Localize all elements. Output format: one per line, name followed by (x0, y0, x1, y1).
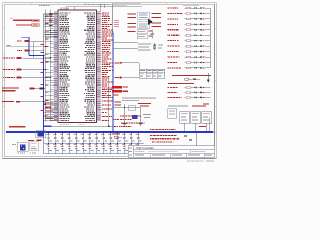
net labels right of blue vertical (114, 19, 119, 22)
resistor pack RN box 2 (138, 22, 150, 29)
net label specks on left pin wires (46, 15, 49, 116)
capacitor C409 decoupling row2 (108, 143, 114, 154)
capacitor C top middle (151, 30, 153, 34)
gray text above IC right (84, 3, 86, 6)
capacitor C408 decoupling row2 (101, 143, 107, 154)
wire blue bus vertical right of IC (112, 33, 114, 132)
capacitor C309 decoupling row1 (108, 133, 114, 144)
wire capacitor bank mid rail (46, 143, 144, 145)
power down arrow symbol (207, 73, 209, 80)
capacitor C300 decoupling row1 (46, 133, 52, 144)
diode pair bottom middle (185, 135, 187, 137)
relay block box 1 (180, 112, 190, 123)
junction dot under-IC wire right (112, 126, 113, 127)
wire bundle bus to IC mid left pins (44, 31, 58, 37)
off-page connector row y69 (3, 69, 5, 70)
red block label 2 (112, 90, 122, 92)
gray header text right column (183, 4, 199, 7)
wire purple right vertical (208, 118, 210, 132)
wire blue bus horizontal main (6, 131, 214, 133)
parameter table (139, 69, 165, 78)
component box bottom left (30, 142, 39, 151)
crystal circuit wires (124, 104, 126, 124)
capacitor C303 decoupling row1 (67, 133, 73, 144)
capacitor C304 decoupling row1 (74, 133, 80, 144)
net label specks on upper left wires (49, 13, 53, 16)
net label specks along bus (41, 43, 44, 46)
inner border frame (5, 4, 215, 157)
wire blue bus step label segment (43, 126, 52, 127)
capacitor C407 decoupling row2 (94, 143, 100, 154)
wire vertical net left of IC 1 (44, 10, 46, 122)
wire vertical net upper short (33, 42, 35, 58)
gray label right of IC top (101, 5, 103, 8)
LED indicator row 5 (resistor + dual diode) (167, 29, 169, 30)
tiny labels on under-IC wire (60, 123, 63, 126)
red net labels below bus left of title block (150, 135, 153, 136)
LED indicator row 9 (resistor + dual diode) (167, 51, 168, 52)
gray label right of crystal (143, 113, 151, 116)
blue component crystal area (132, 115, 138, 119)
LED indicator row mid 2 (167, 92, 170, 93)
ground symbol capacitor bank right end (143, 154, 145, 155)
off-page connector row y41 (17, 40, 19, 41)
resistor R bottom middle (112, 133, 120, 136)
red labels left of packs (128, 14, 137, 15)
capacitor C404 decoupling row2 (74, 143, 80, 154)
wire dark continuation above blue vertical (112, 4, 114, 33)
vertical rail right column (209, 8, 211, 68)
wire relay block to bus 2 (195, 123, 197, 131)
title block bottom row cells (149, 153, 151, 157)
LED indicator row 2 (resistor + dual diode) (167, 13, 169, 14)
border zone tick marks (3, 3, 217, 159)
off-page connector row y50 (17, 50, 19, 51)
relay block left box (168, 109, 177, 119)
capacitor C401 decoupling row2 (53, 143, 59, 154)
IC U201 internal pin name text left column (59, 12, 70, 121)
off-page connector row y58 (3, 57, 6, 58)
junction dots left bus (50, 57, 51, 58)
LED indicator row 12 (resistor + dual diode) (167, 67, 169, 68)
gray text below bottom left boxes (17, 151, 19, 154)
relay block box 3 (202, 112, 212, 123)
wire vertical net right of IC (108, 78, 110, 126)
red net labels above title block (150, 129, 151, 130)
transistor row below LED column red text (172, 75, 211, 76)
capacitor C400 decoupling row2 (46, 143, 52, 154)
crystal Y1 box (128, 106, 136, 110)
IC U201 body (58, 10, 97, 123)
wire vertical bus upper segment (43, 14, 45, 56)
capacitor C405 decoupling row2 (81, 143, 87, 154)
footer text outside frame (187, 161, 190, 162)
capacitor C411 decoupling row2 (122, 143, 128, 154)
red labels crystal (138, 103, 151, 104)
gray rail label above bus (39, 4, 41, 7)
red label above bottom left boxes (28, 139, 34, 142)
ground symbol crystal right (139, 123, 143, 125)
LED indicator row mid 1 (167, 87, 169, 88)
off-page connector into table y62 (115, 62, 120, 63)
capacitor C308 decoupling row1 (101, 133, 107, 144)
gray title text top middle (112, 3, 140, 6)
title block outline (128, 146, 215, 158)
capacitor C312 decoupling row1 (129, 133, 135, 144)
title block row lines (133, 149, 215, 151)
LED indicator row 8 (resistor + dual diode) (167, 46, 169, 47)
gray text above crystal (122, 96, 156, 99)
net label small rows near IC mid left (45, 30, 49, 33)
red block label 1 (112, 86, 122, 88)
capacitor C306 decoupling row1 (87, 133, 93, 144)
ground symbol crystal left (123, 123, 127, 125)
capacitor C311 decoupling row1 (122, 133, 128, 144)
red text row 2 below LED column (168, 83, 194, 84)
wire horizontal top feed (66, 6, 142, 8)
LED indicator row 11 (resistor + dual diode) (167, 62, 169, 63)
capacitor C402 decoupling row2 (60, 143, 66, 154)
red labels right of packs (152, 13, 162, 14)
svg-text:PQF Controller: PQF Controller (137, 146, 154, 150)
outer border frame (3, 3, 217, 159)
wire bundle bus to IC lower left pins (44, 104, 58, 120)
capacitor C307 decoupling row1 (94, 133, 100, 144)
LED indicator row 4 (resistor + dual diode) (167, 24, 169, 25)
off-page connector row y101 (2, 101, 14, 102)
connector box small 2 (137, 35, 147, 39)
table cell text (140, 70, 163, 76)
IC U201 right pin stubs (97, 13, 102, 121)
capacitor C305 decoupling row1 (81, 133, 87, 144)
gray text block mid right (138, 43, 151, 46)
wire blue bus drop to capacitor bank (43, 132, 45, 154)
wire crystal right (140, 108, 142, 124)
oscillator box X1 below bus (36, 131, 46, 138)
wire relay block to bus 3 (206, 123, 208, 131)
wire blue bus upper left jog (28, 37, 30, 56)
LED indicator row 6 (resistor + dual diode) (167, 35, 168, 36)
capacitor C310 decoupling row1 (115, 133, 121, 144)
net labels IC bottom left cluster (45, 102, 54, 105)
red label left of connector boxes (128, 31, 136, 32)
small gray mark top left (10, 17, 13, 20)
wire vertical to title block (195, 133, 197, 146)
IC U31 bottom left with blue body (17, 142, 28, 151)
gray label left bottom area (12, 143, 14, 146)
svg-text:U201A: U201A (60, 6, 69, 10)
net label red line 2 upper left (16, 24, 31, 25)
capacitor C412 decoupling row2 (129, 143, 135, 154)
connector box small 1 (137, 30, 147, 34)
net labels right of blue vertical lower (115, 101, 122, 102)
page background (0, 0, 220, 170)
capacitor C302 decoupling row1 (60, 133, 66, 144)
dark arrow symbol between packs (148, 19, 153, 25)
relay block box 2 (191, 112, 201, 123)
wire branch to right block A (113, 41, 138, 43)
wire IC top pin 1 (65, 7, 67, 10)
wire drop from top border right of IC 2 (104, 4, 106, 8)
net label boxed part line 1 (32, 19, 40, 21)
wire horizontal under IC (44, 125, 113, 127)
wires bus pair to IC left pins (45, 13, 53, 121)
resistor vertical mid right (154, 43, 156, 51)
gray text above relay block (168, 104, 188, 107)
off-page connector row y77 (3, 77, 4, 78)
IC U201 right side net labels (102, 12, 113, 121)
title block left column (132, 146, 134, 158)
LED indicator row 7 (resistor + dual diode) (167, 40, 169, 41)
LED indicator row 3 (resistor + dual diode) (167, 18, 169, 19)
LED indicator row mid 3 (167, 97, 169, 98)
wire blue vertical to crystal (113, 107, 125, 109)
warning red text rows below crystal (120, 116, 121, 117)
gray text right of resistor (158, 44, 163, 47)
wire drop from top border right of IC 1 (99, 4, 101, 12)
junction dot crystal (124, 107, 125, 108)
capacitor C413 decoupling row2 (136, 143, 142, 154)
wire bundle bus to IC upper left pins (44, 13, 58, 26)
off-page connector row y46 wire (6, 46, 45, 48)
IC U201 left pin number text (54, 12, 57, 120)
capacitor C406 decoupling row2 (87, 143, 93, 154)
capacitor C403 decoupling row2 (67, 143, 73, 154)
resistor pack RN box 1 (138, 12, 150, 19)
wire relay block to bus 1 (184, 123, 186, 131)
title block doc row text (135, 150, 145, 153)
wire branch to right block B (113, 47, 138, 49)
wire IC top pin 2 (73, 7, 75, 10)
net label red near blue corner (9, 126, 26, 127)
connector junction blob y88 (40, 87, 43, 89)
net label red line 1 upper left (13, 20, 32, 21)
capacitor C410 decoupling row2 (115, 143, 121, 154)
capacitor crystal left (124, 112, 126, 124)
red specks right column above bus (199, 125, 206, 128)
IC U201 left pin stubs (53, 13, 58, 121)
off-page connector row y88 with text lines (2, 87, 19, 88)
wire capacitor bank bottom rail (46, 153, 144, 155)
off-page connector into table y77 (115, 77, 120, 78)
net label boxed part line 2 (32, 24, 40, 26)
capacitor C301 decoupling row1 (53, 133, 59, 144)
wire vertical net left of IC 2 (49, 10, 51, 122)
IC U201 right pin number text (97, 12, 100, 120)
red label left of oscillator (37, 140, 42, 141)
IC U201 internal pin name text right column (84, 12, 95, 121)
LED indicator row 10 (resistor + dual diode) (167, 56, 170, 57)
LED indicator row 1 (resistor + dual diode) (167, 7, 169, 8)
transistor symbols (185, 78, 189, 80)
capacitor C313 decoupling row1 (136, 133, 142, 144)
wire blue bus vertical left (43, 56, 45, 132)
